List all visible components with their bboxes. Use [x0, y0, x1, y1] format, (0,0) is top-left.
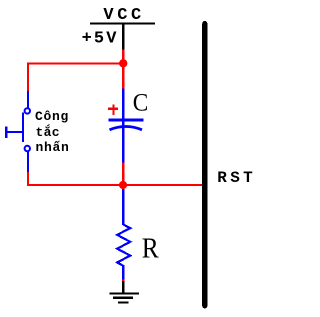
IC edge bar [202, 21, 207, 308]
switch S1 button bar [5, 126, 7, 138]
switch S1 terminal circle bottom [25, 146, 30, 151]
capacitor C1 bottom plate arc [110, 127, 143, 130]
switch S1 bottom lead [27, 151, 29, 171]
switch S1 terminal circle top [25, 108, 30, 113]
svg-text:C: C [133, 90, 149, 117]
svg-text:Công: Công [35, 109, 69, 124]
switch S1 top lead [27, 91, 29, 108]
wire top horizontal [27, 63, 124, 65]
svg-text:tắc: tắc [36, 124, 60, 140]
capacitor C1 red bottom lead [122, 163, 124, 186]
wire bottom horizontal RST net [27, 184, 202, 186]
ground lead [122, 281, 124, 292]
pin junction dot [122, 280, 124, 282]
wire left vertical lower [27, 172, 29, 186]
capacitor C1 blue bottom lead [122, 122, 124, 163]
capacitor C1 red top lead [122, 63, 124, 89]
wire VCC stub black [122, 24, 124, 49]
resistor R1 zigzag body [117, 225, 130, 266]
ground symbol [109, 292, 139, 303]
svg-text:+5V: +5V [82, 30, 119, 49]
wire red VCC to node [122, 50, 124, 64]
wire left vertical upper [27, 63, 29, 92]
polarity plus sign [108, 105, 118, 115]
power symbol VCC bar [90, 22, 155, 24]
resistor R1 bottom lead [122, 265, 124, 279]
svg-text:RST: RST [217, 169, 256, 187]
capacitor C1 top plate [108, 119, 143, 122]
resistor R1 top lead [122, 189, 124, 225]
node junction top [119, 59, 127, 67]
svg-text:VCC: VCC [103, 6, 144, 25]
svg-text:R: R [142, 234, 159, 265]
switch S1 actuator [6, 131, 23, 133]
capacitor C1 blue top lead [122, 89, 124, 120]
svg-text:nhấn: nhấn [36, 140, 70, 155]
switch S1 pole bar [22, 113, 24, 142]
node junction bottom [119, 181, 127, 189]
